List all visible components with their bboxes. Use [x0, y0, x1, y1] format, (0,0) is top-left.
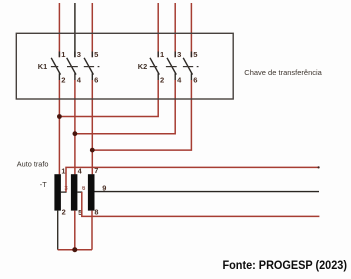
- wire: K2 pin 6 output to node C (red L-shape): [92, 80, 191, 150]
- wire: tap 6 stub (black): [77, 191, 82, 193]
- svg-text:Chave de transferência: Chave de transferência: [244, 68, 322, 77]
- node B junction dot: [73, 131, 78, 136]
- wire: star point horizontal (red): [58, 249, 92, 251]
- contactor K1 pole 3 contact (pins 5-6): [84, 52, 93, 81]
- svg-text:3: 3: [77, 50, 81, 59]
- K1 mechanical linkage dashed line: [51, 66, 100, 68]
- wire: trafo pin 5 down to star node (red): [74, 211, 76, 250]
- wire: trafo pin 2 down (black): [57, 211, 59, 250]
- svg-text:2: 2: [62, 207, 66, 216]
- svg-text:1: 1: [61, 166, 65, 175]
- wire: K2 pole 3 input (red, top): [190, 3, 192, 57]
- wire: K2 pin 2 output to node A (red L-shape): [59, 80, 158, 117]
- svg-text:3: 3: [177, 50, 181, 59]
- wire: K1 pin 2 output down to trafo pin 1 (red): [58, 80, 60, 174]
- svg-text:-T: -T: [40, 180, 47, 189]
- enclosure box: chave de transferencia: [16, 33, 233, 99]
- svg-text:8: 8: [94, 207, 98, 216]
- svg-text:6: 6: [94, 76, 98, 85]
- star node junction dot: [72, 247, 77, 252]
- wire: K1 pin 6 output down to trafo pin 7 (red): [91, 80, 93, 174]
- svg-text:2: 2: [61, 76, 65, 85]
- svg-text:2: 2: [160, 76, 164, 85]
- wire: K1 pole 3 input (phase C, red, top): [91, 3, 93, 57]
- wire: K1 pole 2 input (phase B, black, top): [74, 3, 76, 57]
- wire: tap 3 end tip: [318, 166, 320, 168]
- transformer T winding 2 (pins 4-5): [71, 174, 78, 210]
- wire: trafo pin 8 down (red): [91, 211, 93, 250]
- wire: tap 6 output (red, down then right to edge): [82, 192, 320, 216]
- svg-text:Auto trafo: Auto trafo: [17, 160, 49, 169]
- wire: tap 9 output (black, right to edge): [95, 191, 320, 193]
- svg-text:K1: K1: [38, 62, 47, 71]
- svg-text:Fonte: PROGESP (2023): Fonte: PROGESP (2023): [223, 259, 348, 272]
- wire: K2 pole 2 input (red, top): [174, 3, 176, 57]
- svg-text:K2: K2: [138, 62, 147, 71]
- wire: K2 pole 1 input (red, top): [157, 3, 159, 57]
- K2 mechanical linkage dashed line: [150, 66, 199, 68]
- transformer T winding 1 (pins 1-2): [54, 174, 61, 210]
- wire: K1 pole 1 input (phase A, red, top): [58, 3, 60, 57]
- wire: tap 3 output (red, up then right to edge): [66, 167, 319, 192]
- contactor K2 pole 2 contact (pins 3-4): [167, 52, 176, 81]
- transformer T winding 3 (pins 7-8): [88, 174, 95, 210]
- contactor K2 pole 3 contact (pins 5-6): [183, 52, 192, 81]
- wire: K2 pin 4 output to node B (red L-shape): [75, 80, 175, 134]
- wire: K1 pin 4 output down to trafo pin 4 (red): [74, 80, 76, 174]
- node C junction dot: [90, 148, 95, 153]
- contactor K1 pole 1 contact (pins 1-2): [51, 52, 60, 81]
- svg-text:6: 6: [193, 76, 197, 85]
- contactor K2 pole 1 contact (pins 1-2): [150, 52, 159, 81]
- wire: tap 3 stub (black): [61, 191, 67, 193]
- node A junction dot: [57, 114, 62, 119]
- contactor K1 pole 2 contact (pins 3-4): [67, 52, 76, 81]
